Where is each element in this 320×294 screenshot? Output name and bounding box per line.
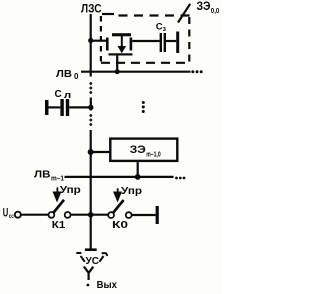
svg-text:0: 0 xyxy=(74,72,79,81)
control arrow Упр for К0 xyxy=(113,188,122,202)
svg-text:Вых: Вых xyxy=(97,279,117,291)
node: bus junction to cell ЗЭm-1,0 xyxy=(88,149,94,155)
svg-text:ЛВ: ЛВ xyxy=(34,168,51,180)
wire ЛЗС vertical bus top segment xyxy=(90,14,92,77)
wire К0 to terminal bar xyxy=(132,214,156,216)
node: bus termination bar above УС xyxy=(85,248,97,251)
wire transistor drain to capacitor Сз xyxy=(132,40,159,42)
svg-text:ЗЭ: ЗЭ xyxy=(197,1,211,13)
wire transistor substrate lead down to ЛВ0 xyxy=(116,56,118,73)
node Ucc label xyxy=(3,205,14,219)
capacitor Сл xyxy=(45,99,91,116)
node A: bus to transistor junction xyxy=(88,38,93,43)
storage cell ЗЭ0,0 dashed box bottom edge xyxy=(101,62,190,64)
node: column continuation vertical ellipsis xyxy=(142,101,145,113)
storage cell ЗЭ0,0 dashed box top edge xyxy=(102,14,190,16)
node ЛВ0 label xyxy=(56,68,79,81)
wire ЛЗС vertical bus lower segment xyxy=(90,130,92,249)
wire ЛВ0 select line xyxy=(81,71,191,73)
capacitor Сз xyxy=(160,32,180,54)
node ЗЭ0,0 label xyxy=(197,1,220,15)
storage cell ЗЭ0,0 dashed box right edge xyxy=(188,17,190,65)
svg-text:ЛВ: ЛВ xyxy=(56,68,72,80)
switch К0 xyxy=(108,200,131,218)
wire ЛВ0 continuation ellipsis xyxy=(191,70,202,73)
svg-text:Упр: Упр xyxy=(121,185,142,197)
node: bottom wire junction on bus xyxy=(88,212,94,218)
wire ЛВm-1 select line xyxy=(65,176,174,178)
wire К1 to К0 across bus xyxy=(71,214,109,216)
wire bus to ЗЭm-1,0 box xyxy=(91,151,111,153)
svg-text:m–1,0: m–1,0 xyxy=(146,149,161,158)
wire bus to transistor source xyxy=(91,40,106,42)
op-amp УС sense amplifier dashed triangle xyxy=(76,253,107,262)
capacitor Сл label xyxy=(55,89,72,101)
capacitor Сз label xyxy=(156,21,167,33)
control arrow Упр for К1 xyxy=(53,187,62,202)
switch К1 xyxy=(49,200,71,218)
svg-text:К1: К1 xyxy=(52,220,66,231)
svg-text:cc: cc xyxy=(9,213,14,220)
svg-text:ЗЭ: ЗЭ xyxy=(130,144,146,156)
wire ЛВm-1 continuation ellipsis xyxy=(175,177,185,180)
svg-text:ЛЗС: ЛЗС xyxy=(81,4,102,16)
transistor VT1 storage MOS of cell ЗЭ0,0 xyxy=(106,33,133,55)
wire bus dotted continuation segment xyxy=(89,82,92,94)
node: substrate lead junction on ЛВ0 xyxy=(115,69,120,74)
svg-text:m–1: m–1 xyxy=(51,176,64,183)
node ЛВm-1 label xyxy=(34,168,64,182)
leader line to ЗЭ0,0 label xyxy=(178,4,190,23)
svg-text:з: з xyxy=(163,26,167,33)
wire Ucc to К1 xyxy=(21,214,49,216)
node Ucc input terminal circle xyxy=(15,212,21,218)
storage cell ЗЭm-1,0 box xyxy=(110,139,177,161)
svg-text:К0: К0 xyxy=(112,220,129,231)
svg-text:УС: УС xyxy=(86,255,100,267)
svg-text:Упр: Упр xyxy=(60,184,81,196)
wire УС output apex and lead xyxy=(84,267,93,281)
node: dot before Вых xyxy=(87,284,90,287)
svg-text:U: U xyxy=(3,205,9,219)
wire ЗЭm-1,0 box lead down to ЛВm-1 xyxy=(137,161,139,177)
node: right common terminal bar xyxy=(156,206,159,224)
node: Сл junction on bus xyxy=(88,105,93,110)
svg-text:С: С xyxy=(55,89,62,100)
node: box lead junction on ЛВm-1 xyxy=(135,174,141,180)
storage cell ЗЭ0,0 dashed box left edge xyxy=(100,16,102,63)
node ЗЭm-1,0 label xyxy=(130,144,161,158)
svg-text:0,0: 0,0 xyxy=(211,6,220,15)
